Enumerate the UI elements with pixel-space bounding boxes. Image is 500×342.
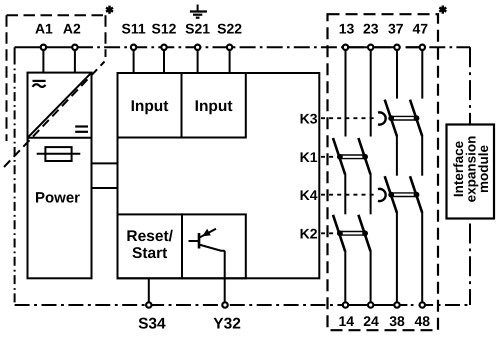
contact K1 blade 13-14 (333, 138, 345, 174)
contact dashed box (asterisk, right) (328, 14, 439, 330)
wire contact column 13 mid (344, 174, 346, 214)
module border top (dash-dot) (15, 46, 470, 48)
terminal S22 (227, 45, 232, 50)
terminal S21 (195, 45, 200, 50)
svg-text:S22: S22 (217, 20, 242, 36)
terminal 48 (420, 302, 425, 307)
wire contact column 47 mid (421, 136, 423, 176)
terminal 38 (394, 302, 399, 307)
terminal 23 (368, 45, 373, 50)
svg-text:Power: Power (35, 190, 80, 207)
svg-text:S21: S21 (185, 20, 210, 36)
wire contact column 37 top (396, 51, 398, 99)
K3 label and link line (300, 110, 386, 126)
wire contact column 13 bottom (344, 251, 346, 302)
power-to-logic bus (92, 163, 118, 188)
bottom link dot (411, 304, 414, 306)
svg-text:Y32: Y32 (213, 316, 241, 333)
contact K2 blade 23-24 (358, 215, 370, 251)
svg-text:S12: S12 (152, 20, 177, 36)
terminal A1 (41, 45, 46, 50)
terminal 37 (394, 45, 399, 50)
svg-text:A1: A1 (35, 20, 53, 36)
AC symbol (line over tilde) (33, 81, 46, 87)
svg-text:S11: S11 (122, 20, 146, 36)
wire contact column 13 top (345, 51, 347, 137)
transistor Q1 (189, 229, 225, 251)
K4 linkage (388, 192, 419, 198)
wire contact column 47 bottom (421, 212, 423, 301)
ground above S21 (190, 5, 207, 18)
wire contact column 37 mid (396, 136, 398, 176)
terminal 14 (343, 302, 348, 307)
wire S11 (133, 51, 135, 73)
wire S22 (229, 51, 231, 73)
wire contact column 23 mid (370, 174, 372, 214)
svg-text:A2: A2 (63, 20, 81, 36)
svg-text:48: 48 (415, 313, 431, 329)
contact K3 blade 37-38 (385, 100, 397, 137)
svg-text:Start: Start (132, 245, 167, 262)
terminal A2 (72, 45, 77, 50)
svg-text:Input: Input (195, 98, 233, 115)
contact K4 blade 37-38 (385, 176, 397, 213)
input block 2 (182, 73, 246, 138)
wire 37-47 top link (406, 46, 423, 48)
K1 linkage (337, 154, 368, 160)
dashed diagonal through power converter (4, 62, 105, 168)
contact K4 blade 47-48 (410, 176, 422, 213)
wire contact column 23 top (370, 51, 372, 137)
svg-text:37: 37 (388, 20, 404, 36)
wire S34 (148, 278, 150, 301)
contact K3 blade 47-48 (410, 100, 422, 137)
K2 linkage (337, 230, 368, 236)
contact K2 blade 13-14 (333, 215, 345, 251)
K1 label and link line (300, 149, 338, 165)
wire S12 (163, 51, 165, 73)
svg-text:K2: K2 (300, 225, 318, 241)
converter diagonal (28, 73, 92, 138)
svg-text:38: 38 (389, 313, 405, 329)
wire 13-23-37 top link (346, 46, 400, 48)
fuse F1 (37, 147, 81, 161)
optional-supply dashed box (asterisk, left) (7, 15, 106, 141)
wire A1 (42, 51, 44, 73)
module border left (dash-dot) (14, 47, 16, 305)
terminal S34 (146, 302, 151, 307)
module border bottom (dash-dot) (15, 304, 470, 306)
K4 label and link line (300, 187, 386, 203)
wire A2 (74, 51, 76, 73)
reset/start block (118, 214, 183, 278)
terminal S11 (131, 45, 136, 50)
wire contact column 47 top (421, 51, 423, 99)
terminal Y32 (222, 302, 227, 307)
svg-text:K3: K3 (300, 110, 318, 126)
svg-text:S34: S34 (138, 316, 166, 333)
svg-text:Reset/: Reset/ (126, 228, 173, 245)
output driver block (182, 214, 246, 278)
svg-text:14: 14 (339, 313, 355, 329)
terminal S12 (161, 45, 166, 50)
terminal 47 (420, 45, 425, 50)
wire contact column 37 bottom (396, 212, 398, 301)
wire S21 (197, 51, 199, 73)
svg-text:module: module (476, 145, 491, 193)
contact K1 blade 23-24 (358, 138, 370, 174)
input block 1 (118, 73, 182, 138)
wire 14-24-38 bottom link (346, 304, 408, 306)
wire contact column 23 bottom (370, 251, 372, 302)
interface expansion module box (447, 125, 495, 219)
svg-text:23: 23 (363, 20, 379, 36)
power supply box (28, 73, 92, 279)
terminal 24 (368, 302, 373, 307)
asterisk left (106, 6, 113, 14)
svg-text:Input: Input (131, 98, 169, 115)
DC symbol (=) (75, 127, 88, 132)
asterisk right (439, 6, 446, 14)
K2 label and link line (300, 225, 338, 241)
module border right (dash-dot) (469, 47, 471, 305)
svg-text:47: 47 (413, 20, 429, 36)
K3 linkage (388, 115, 419, 121)
svg-text:K1: K1 (300, 149, 318, 165)
terminal 13 (343, 45, 348, 50)
svg-text:K4: K4 (300, 187, 318, 203)
svg-text:13: 13 (339, 20, 355, 36)
main logic box (118, 73, 320, 278)
wire Y32 (224, 251, 226, 302)
svg-text:24: 24 (363, 313, 379, 329)
converter section separator (28, 137, 92, 139)
